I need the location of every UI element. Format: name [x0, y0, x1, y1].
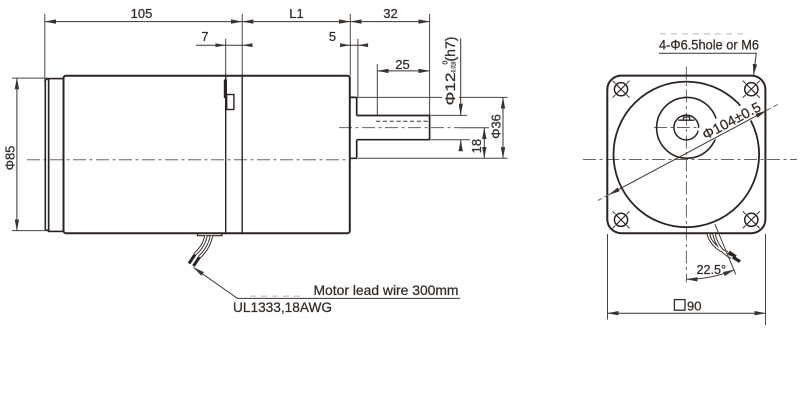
dimension phi104 diagonal [609, 111, 767, 195]
svg-text:Motor lead wire 300mm: Motor lead wire 300mm [314, 282, 459, 298]
dimension phi85 [16, 78, 18, 231]
svg-text:4-Φ6.5hole or M6: 4-Φ6.5hole or M6 [659, 38, 759, 53]
leader 4-phi6.5 [659, 53, 756, 75]
phi104 dash extension upper-right [766, 104, 778, 110]
lead wire 1 side view [195, 236, 207, 255]
gear case big circle [614, 82, 760, 228]
joint line gearhead rear [241, 76, 243, 233]
extension line square90 right [765, 234, 767, 325]
wire terminal 2 front view [733, 257, 740, 262]
dimension arc 22.5 [687, 270, 735, 280]
lead wire 2 side view [200, 236, 212, 257]
dimension phi36 [502, 97, 504, 158]
dimension 5 [341, 44, 368, 46]
extension line centerline for 18 dim [459, 127, 489, 129]
svg-text:5: 5 [329, 29, 336, 44]
lead wire tab side view [198, 234, 223, 236]
svg-text:-0.018: -0.018 [451, 61, 458, 73]
svg-text:32: 32 [383, 6, 397, 21]
extension line boss top phi36 [357, 96, 508, 98]
svg-text:22.5°: 22.5° [697, 263, 727, 277]
small tab on joint [227, 95, 234, 110]
white mask behind phi104 text [697, 98, 764, 145]
svg-text:(h7): (h7) [443, 37, 458, 62]
svg-text:UL1333,18AWG: UL1333,18AWG [233, 300, 332, 315]
faint ghost dashes above label [660, 33, 746, 35]
extension line 105/L1/7 shared [241, 14, 243, 76]
mounting hole top-left [613, 81, 630, 98]
wire terminal 2 side view [194, 257, 200, 266]
joint line motor front [225, 76, 227, 233]
dimension 7 [196, 44, 253, 46]
extension line L1/32/5 shared [349, 14, 351, 76]
extension line shaft top [431, 114, 467, 116]
dimension 32 [350, 21, 429, 23]
svg-text:18: 18 [469, 139, 484, 153]
extension line 32/25 right [429, 14, 431, 115]
extension line phi85 bottom [12, 230, 48, 232]
wire terminal 1 front view [729, 252, 736, 257]
extension line 105 left [44, 14, 46, 83]
gearhead square flange front view [607, 76, 765, 234]
22.5 degree ray [715, 224, 736, 275]
boss circle front view [657, 97, 718, 158]
extension line square90 left [607, 234, 609, 320]
dimension phi12 line lower [460, 140, 462, 150]
svg-text:7: 7 [201, 29, 208, 44]
svg-text:Φ85: Φ85 [3, 146, 18, 171]
wire terminal 1 side view [189, 255, 195, 264]
svg-text:L1: L1 [289, 6, 303, 21]
centerline main axis side view [27, 159, 349, 161]
shaft circle front view [674, 115, 699, 140]
shaft keyway front view [678, 119, 694, 121]
thick tick on joint [224, 80, 227, 99]
extension line boss bottom phi36 [358, 157, 508, 159]
svg-text:25: 25 [395, 57, 409, 72]
extension line 5 right [357, 39, 359, 97]
dimension 25 [377, 70, 429, 72]
extension line phi85 top [12, 77, 48, 79]
lead wire 1 front view [709, 234, 728, 253]
phi104 dash extension lower-left [598, 195, 609, 201]
dimension 18 [483, 128, 485, 158]
front view centerline shaft horizontal [654, 127, 721, 129]
dimension 105 [45, 21, 242, 23]
motor rear section [49, 79, 64, 232]
dimension phi12 line upper [460, 39, 462, 115]
mounting hole bottom-left [613, 211, 630, 228]
lead wire 2 front view [714, 234, 732, 257]
gearhead front boss [350, 97, 357, 158]
svg-text:Φ104±0.5: Φ104±0.5 [699, 98, 763, 142]
mounting hole bottom-right [743, 211, 760, 228]
dimension L1 [242, 21, 350, 23]
extension line shaft bottom [431, 139, 470, 141]
front view centerline horizontal main [583, 159, 797, 161]
shaft keyway hidden line [376, 120, 429, 122]
extension line 7 left [225, 39, 227, 76]
faint ghost dashes near leader [250, 295, 305, 297]
leader motor lead wire [194, 268, 461, 299]
label square90 [674, 300, 685, 311]
front view centerline vertical [685, 67, 687, 283]
extension line 25 left [376, 64, 378, 115]
svg-text:Φ36: Φ36 [489, 114, 504, 139]
svg-text:105: 105 [131, 6, 153, 21]
dimension square90 [608, 312, 766, 314]
output shaft [357, 116, 430, 140]
mounting hole top-right [743, 81, 760, 98]
motor rear ring [45, 79, 48, 231]
svg-text:90: 90 [687, 299, 701, 314]
white mask behind phi12 text column [442, 34, 459, 108]
svg-text:Φ12: Φ12 [443, 73, 458, 106]
centerline shaft axis side view [339, 127, 459, 129]
motor-gearhead main body [64, 76, 350, 234]
